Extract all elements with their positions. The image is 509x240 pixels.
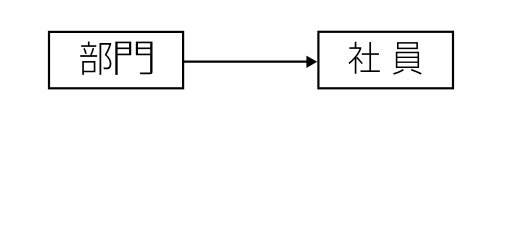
arrowhead pointing at 社員 box: [306, 56, 317, 68]
entity box 社員 (employee): [318, 32, 453, 89]
wire: connector line from 部門 to 社員: [184, 61, 308, 63]
label 社員: [349, 42, 422, 75]
label 部門: [80, 41, 152, 74]
entity box 部門 (department): [49, 32, 183, 88]
